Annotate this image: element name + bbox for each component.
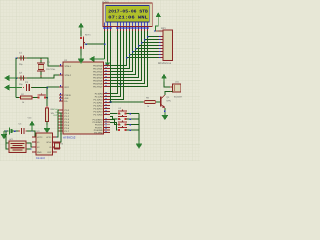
- junction battery column: [14, 130, 16, 132]
- value 30pF: [19, 83, 23, 86]
- wire R5 to Q1 base: [156, 101, 160, 103]
- wire U1 P3.3 to key 3: [110, 117, 118, 120]
- wire D0 net: LCD D0 down, branch right to RP1 pin, down-left to P0.0: [110, 31, 163, 66]
- value 10k: [51, 112, 55, 115]
- wire key 3 to common rail: [127, 118, 140, 120]
- resistor R1 vertical: [46, 108, 49, 122]
- keys common ground rail: [138, 114, 140, 141]
- svg-text:P1.7: P1.7: [65, 130, 70, 133]
- wire XTAL2 net: [16, 75, 59, 78]
- svg-text:BUZZER: BUZZER: [174, 96, 183, 99]
- svg-text:P3.5/T1: P3.5/T1: [95, 126, 103, 129]
- wire RST node to U1 RST: [47, 86, 59, 89]
- ground terminal R1: [44, 125, 51, 133]
- svg-text:P3.4/T0: P3.4/T0: [95, 124, 103, 127]
- svg-text:LCD1: LCD1: [102, 1, 109, 4]
- label DS1302: [36, 157, 46, 160]
- wire U1 P3.5 to key 5: [110, 123, 118, 131]
- svg-text:ALE: ALE: [65, 97, 70, 100]
- wire key 4 to common rail: [127, 124, 140, 126]
- label NPN: [167, 99, 172, 102]
- ground terminal crystal rail: [4, 75, 16, 81]
- RTC U3 DS1302 body: [36, 133, 53, 155]
- label LS1: [175, 81, 180, 84]
- svg-text:VCC1: VCC1: [46, 136, 52, 139]
- svg-text:P2.3/A11: P2.3/A11: [94, 102, 104, 105]
- svg-text:2017-05-06 STB: 2017-05-06 STB: [108, 9, 148, 14]
- svg-text:P0.4/AD4: P0.4/AD4: [93, 77, 103, 80]
- svg-text:RP1: RP1: [161, 27, 166, 30]
- power terminal buzzer: [161, 74, 172, 88]
- label R2: [21, 93, 25, 96]
- net label SCLK: [52, 108, 58, 111]
- crystal X1: [37, 58, 45, 78]
- svg-text:P3.2/INT0: P3.2/INT0: [93, 119, 104, 122]
- pushbutton KEY1: [80, 36, 85, 49]
- U3 left pins VCC2 X1 X2 GND: [32, 136, 43, 154]
- resistor R5: [144, 101, 157, 104]
- U1 right pins P3.2-P3.7: [93, 118, 110, 135]
- svg-text:DS1302: DS1302: [36, 157, 46, 160]
- svg-text:CRYSTAL: CRYSTAL: [46, 68, 56, 71]
- wire RST vertical to R1: [46, 88, 48, 108]
- svg-text:P3.3/INT1: P3.3/INT1: [93, 121, 104, 124]
- value 30pF: [19, 63, 23, 66]
- wire D3 net: LCD D3 down, branch right to RP1 pin, down-left to P0.3: [110, 31, 163, 75]
- pushbutton K3: [118, 112, 127, 120]
- wire rail to R2: [16, 97, 20, 99]
- U1 left pins P1.0-P1.7: [58, 109, 69, 133]
- ground terminal (left arrow) for VSS: [89, 56, 105, 62]
- svg-text:SCLK: SCLK: [57, 130, 62, 133]
- left cap rail: [15, 58, 17, 98]
- svg-text:RST: RST: [65, 86, 70, 89]
- label RESPACK-8: [158, 62, 172, 65]
- U1 right pins P2.0-P2.7: [94, 92, 111, 117]
- microcontroller U1 AT89C52 body: [63, 62, 104, 134]
- svg-text:SCLK: SCLK: [46, 141, 52, 144]
- svg-text:P0.1/AD1: P0.1/AD1: [93, 68, 103, 71]
- svg-text:P2.5/A13: P2.5/A13: [94, 108, 104, 111]
- wire power to KEY1: [80, 31, 82, 37]
- wire key 2 to common rail: [127, 113, 140, 115]
- value R2 1k: [22, 101, 25, 104]
- wire R1 to ground: [46, 122, 48, 126]
- svg-text:07:21:06 WNL: 07:21:06 WNL: [108, 15, 148, 20]
- svg-text:P0.3/AD3: P0.3/AD3: [93, 74, 103, 77]
- crystal X2: [54, 142, 61, 149]
- label U3: [37, 130, 41, 133]
- U1 right pins P0.0-P0.7: [93, 64, 110, 89]
- svg-text:P2.6/A14: P2.6/A14: [94, 111, 104, 114]
- wire P2 to R5: [110, 101, 144, 103]
- net label U3 SCLK: [57, 130, 62, 133]
- resistor R2: [19, 96, 34, 99]
- wire D4 net: LCD D4 down, branch right to RP1 pin, down-left to P0.4: [110, 31, 163, 78]
- svg-text:P0.5/AD5: P0.5/AD5: [93, 80, 103, 83]
- wire R2 to reset button: [33, 97, 38, 99]
- svg-text:P0.2/AD2: P0.2/AD2: [93, 71, 103, 74]
- svg-text:VCC: VCC: [28, 117, 33, 120]
- wire BT1 right pins to U3: [26, 143, 36, 150]
- net label U3 IO: [60, 133, 62, 136]
- label Q1: [167, 96, 171, 99]
- wire battery row: [4, 130, 9, 132]
- wire D2 net: LCD D2 down, branch right to RP1 pin, down-left to P0.2: [110, 31, 163, 72]
- capacitor C2: [18, 75, 27, 80]
- capacitor C4: [19, 128, 27, 134]
- label BUZZER: [174, 96, 183, 99]
- svg-text:AT89C52: AT89C52: [63, 136, 76, 140]
- junction VEE/R5-row: [110, 101, 112, 103]
- ground terminal below VDD: [105, 61, 110, 67]
- junction RST node: [46, 87, 48, 89]
- svg-text:P0.7/AD7: P0.7/AD7: [93, 86, 103, 89]
- wire Q1 collector to buzzer: [165, 92, 171, 95]
- junction C1-left: [15, 57, 17, 59]
- svg-text:RESPACK-8: RESPACK-8: [158, 62, 172, 65]
- net label IO: [55, 111, 58, 114]
- pin dot R1 top: [46, 106, 47, 107]
- wire VSS to ground-left terminal: [104, 31, 106, 59]
- svg-text:KEY1: KEY1: [85, 34, 91, 37]
- label VCC: [28, 117, 33, 120]
- junction rail: [5, 130, 6, 131]
- svg-text:P2.1/A9: P2.1/A9: [95, 96, 104, 99]
- svg-text:XTAL1: XTAL1: [65, 65, 72, 68]
- svg-text:P1.4: P1.4: [65, 121, 70, 124]
- wire D7 net: LCD D7 down, branch right to RP1 pin, down-left to P0.7: [110, 31, 163, 87]
- label X2: [61, 143, 64, 146]
- pushbutton K5: [118, 123, 127, 131]
- svg-text:P1.2: P1.2: [65, 115, 70, 118]
- wire D1 net: LCD D1 down, branch right to RP1 pin, down-left to P0.1: [110, 31, 163, 69]
- ground terminal Q1 emitter: [162, 112, 169, 120]
- svg-text:P3.7/RD: P3.7/RD: [94, 132, 103, 135]
- junction KEY1 tap: [85, 43, 87, 45]
- resistor pack RP1 RESPACK-8: [159, 30, 173, 61]
- pushbutton K2: [118, 107, 127, 115]
- junction VSS/KEY1: [104, 43, 106, 45]
- buzzer LS1: [170, 84, 181, 92]
- label C1: [19, 52, 23, 55]
- wire RW to P2.1: [110, 31, 121, 97]
- svg-text:VCC2: VCC2: [37, 136, 43, 139]
- wire Q1 emitter to ground: [164, 108, 166, 112]
- svg-text:P2.4/A12: P2.4/A12: [94, 105, 104, 108]
- label C2: [19, 72, 23, 75]
- svg-text:P2.2/A10: P2.2/A10: [94, 99, 104, 102]
- label CRYSTAL: [46, 68, 56, 71]
- wire KEY1 bottom to ground: [80, 49, 82, 56]
- wire U1 P3.2 to key 2: [110, 113, 118, 115]
- ground terminal KEY1: [78, 56, 85, 64]
- capacitor C3 electrolytic: [23, 84, 32, 91]
- wire XTAL1 net: [16, 58, 59, 66]
- wire VDD down: [107, 31, 109, 61]
- label AT89C52: [63, 136, 76, 140]
- svg-text:P1.1: P1.1: [65, 112, 70, 115]
- power terminal KEY1: [78, 23, 83, 31]
- wire U1 P3.4 to key 4: [110, 120, 118, 125]
- pushbutton K4: [118, 118, 127, 126]
- svg-text:SCLK: SCLK: [52, 108, 58, 111]
- label R1: [51, 108, 55, 111]
- wire key 5 to common rail: [127, 129, 140, 131]
- junction R1 bottom: [46, 123, 47, 124]
- wire P1.1 to U3 IO: [57, 113, 62, 142]
- junction C2-left: [15, 77, 17, 79]
- wire P1.0 to U3 SCLK: [57, 110, 60, 137]
- ground terminal battery row: [1, 131, 8, 139]
- value 1k: [147, 105, 150, 108]
- svg-text:P0.0/AD0: P0.0/AD0: [93, 65, 103, 68]
- U1 left pins XTAL1 XTAL2 RST PSEN ALE EA: [59, 64, 72, 103]
- wire D5 net: LCD D5 down, branch right to RP1 pin, down-left to P0.5: [110, 31, 163, 81]
- wire BT1 left pins to rail: [6, 131, 9, 149]
- svg-text:GND: GND: [37, 151, 42, 154]
- wire E to P2.2: [110, 31, 124, 100]
- junction emitter: [164, 110, 166, 112]
- wire C3 to RST node: [32, 87, 48, 89]
- capacitor C1: [18, 55, 27, 60]
- U3 right pins VCC1 SCLK IO RST: [46, 136, 57, 154]
- wire C4 to VCC and U3 pin1: [26, 131, 36, 137]
- power terminal RP1 common: [154, 12, 161, 32]
- svg-text:XTAL2: XTAL2: [65, 74, 72, 77]
- label C3: [25, 81, 29, 84]
- label BT1: [10, 138, 15, 141]
- svg-text:PSEN: PSEN: [65, 94, 71, 97]
- power terminal VCC DS1302: [29, 121, 34, 129]
- ground terminal reset cap: [4, 84, 22, 90]
- junction VCC arrow: [31, 129, 32, 132]
- svg-text:P1.5: P1.5: [65, 124, 70, 127]
- battery cell B1: [9, 127, 11, 134]
- wire D6 net: LCD D6 down, branch right to RP1 pin, down-left to P0.6: [110, 31, 163, 84]
- svg-text:P0.6/AD6: P0.6/AD6: [93, 83, 103, 86]
- label U1: [64, 59, 68, 62]
- wire VEE rail down: [110, 31, 112, 102]
- label KEY1: [85, 34, 91, 37]
- svg-text:P2.0/A8: P2.0/A8: [95, 93, 104, 96]
- svg-text:P3.6/WR: P3.6/WR: [94, 129, 103, 132]
- transistor Q1 NPN: [161, 95, 165, 108]
- svg-text:P1.0: P1.0: [65, 109, 70, 112]
- label R5: [146, 97, 150, 100]
- net label RST: [54, 114, 59, 117]
- svg-text:P1.6: P1.6: [65, 127, 70, 130]
- backup battery BT1: [8, 141, 27, 153]
- junction button/RST vertical: [46, 97, 48, 99]
- svg-text:NPN: NPN: [167, 99, 172, 102]
- label LCD1: [102, 1, 109, 4]
- wire RS to P2.0: [110, 31, 118, 94]
- label X1: [47, 61, 51, 64]
- label RP1: [161, 27, 166, 30]
- svg-text:P1.3: P1.3: [65, 118, 70, 121]
- wire reset button to RST node: [46, 97, 47, 99]
- ground terminal keys: [136, 141, 143, 149]
- junction RW column: [120, 83, 122, 85]
- reset button: [38, 93, 47, 98]
- label C4: [19, 123, 23, 126]
- wire cell to C4: [12, 130, 20, 132]
- LCD module LCD1 LM016L body: [103, 3, 152, 27]
- svg-text:P2.7/A15: P2.7/A15: [94, 114, 104, 117]
- wire KEY1 tap to VSS column: [85, 43, 105, 45]
- LCD pins 1-14 (VSS VDD VEE RS RW E D0-D7) with vertical blue pin names and numbers: [104, 23, 149, 31]
